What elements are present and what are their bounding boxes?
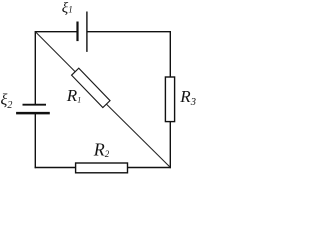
label xi2 [1, 92, 13, 112]
wire right upper segment [169, 31, 171, 77]
wire top-right segment [87, 31, 170, 33]
label xi1 [62, 0, 73, 16]
label R3 [179, 87, 196, 108]
label R1 [66, 86, 81, 105]
wire bottom-right segment [128, 167, 172, 169]
wire bottom-left segment [35, 167, 76, 169]
label R2 [93, 140, 110, 160]
svg-text:R2: R2 [93, 140, 110, 160]
wire top-left segment [35, 31, 77, 33]
battery cell E2 [16, 105, 50, 113]
wire diagonal upper segment [35, 32, 75, 72]
wire left lower segment [34, 113, 36, 168]
battery cell E1 [78, 12, 87, 52]
resistor R3 [165, 77, 174, 122]
svg-text:ξ1: ξ1 [62, 0, 73, 16]
svg-text:R1: R1 [66, 86, 81, 105]
svg-text:R3: R3 [179, 87, 196, 108]
wire right lower segment [169, 122, 171, 169]
wire left upper segment [34, 31, 36, 105]
resistor R2 [76, 163, 128, 173]
resistor R1 [72, 68, 110, 107]
wire diagonal lower segment [106, 104, 170, 167]
svg-text:ξ2: ξ2 [1, 92, 13, 112]
